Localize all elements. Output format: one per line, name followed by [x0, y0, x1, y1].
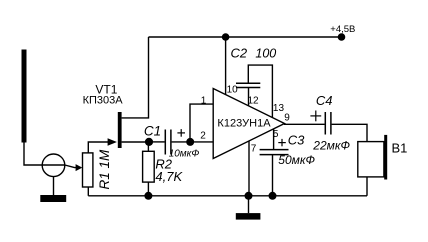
+4,5В terminal dot [338, 33, 346, 41]
junction dot rail / U1 pin 10 [222, 33, 230, 41]
ground (microphone) [53, 177, 55, 195]
potentiometer R1 [83, 153, 93, 187]
C2 loop wire to U1 pin 13 [248, 65, 272, 118]
wire R1 top to VT1 gate [88, 142, 108, 153]
speaker B1 body [358, 142, 384, 177]
U1 pin 1 wire [190, 104, 213, 142]
U1 pin 2 wire [190, 141, 213, 143]
wire C3 to common rail [272, 155, 274, 196]
speaker B1 diaphragm bar [384, 135, 387, 180]
wire VT1 source / R2 top [147, 142, 149, 151]
capacitor C4 [325, 112, 331, 135]
wire R2 bottom to common rail [147, 182, 149, 196]
wire node A to C1 [149, 141, 165, 143]
wire C4 to B1 [332, 124, 367, 141]
junction dot C3 / common rail [269, 192, 277, 200]
svg-text:C3: C3 [288, 133, 305, 148]
wire C1 to node B [172, 141, 191, 143]
common bottom rail [88, 195, 367, 197]
svg-text:50мкФ: 50мкФ [278, 153, 315, 167]
svg-text:9: 9 [284, 112, 290, 123]
svg-text:22мкФ: 22мкФ [312, 139, 350, 153]
op-amp U1 К123УН1А [213, 89, 284, 159]
VT1 gate arrow [108, 138, 117, 146]
svg-text:7: 7 [251, 144, 257, 155]
node A junction dot (VT1 source / C1 / R2) [145, 138, 153, 146]
transistor VT1 channel bar [118, 112, 122, 148]
svg-text:10: 10 [227, 85, 239, 96]
node B junction dot (pins 1-2) [186, 138, 194, 146]
VT1 source wire to node A [122, 141, 149, 143]
svg-text:12: 12 [248, 96, 260, 107]
svg-text:100: 100 [255, 47, 276, 61]
C4 plus sign [310, 111, 321, 122]
svg-text:C2: C2 [231, 46, 248, 61]
svg-text:5: 5 [273, 129, 279, 140]
svg-text:C1: C1 [144, 123, 161, 138]
U1 pin 5 wire to C3 [273, 129, 275, 149]
svg-text:C4: C4 [316, 93, 333, 108]
U1 pin 10 wire from rail [225, 37, 227, 95]
wire B1 to common rail [366, 177, 368, 196]
svg-text:К123УН1А: К123УН1А [217, 118, 271, 130]
U1 pin 9 output wire [284, 123, 325, 125]
svg-text:R1 1М: R1 1М [97, 149, 112, 190]
svg-text:+4,5В: +4,5В [330, 24, 355, 35]
resistor R2 [143, 151, 155, 182]
VT1 drain wire to +4,5В rail [122, 37, 149, 118]
svg-text:10мкФ: 10мкФ [169, 148, 200, 159]
U1 pin 12 wire from C2 [248, 88, 250, 107]
+4,5В power rail [149, 36, 342, 38]
C1 plus sign [177, 129, 185, 137]
svg-text:КП303А: КП303А [83, 94, 124, 106]
wire antenna to microphone [24, 143, 42, 166]
junction dot pin 7 / common rail [245, 192, 253, 200]
svg-text:В1: В1 [392, 141, 408, 156]
wire microphone to R1 wiper [65, 165, 77, 168]
capacitor C3 [260, 150, 289, 155]
svg-text:1: 1 [201, 96, 207, 107]
junction dot R2 / common rail [144, 192, 152, 200]
capacitor C2 [236, 83, 260, 87]
antenna W1 [22, 50, 27, 143]
svg-text:2: 2 [200, 130, 206, 141]
U1 pin 7 wire to common rail [248, 141, 250, 196]
svg-text:4,7K: 4,7K [155, 169, 183, 184]
microphone M1 [42, 154, 65, 177]
wire R1 bottom to common rail [87, 187, 89, 196]
arrow into R1 (wiper) [76, 164, 83, 171]
ground symbol [248, 196, 250, 213]
C3 plus sign [278, 139, 286, 146]
capacitor C1 [165, 130, 171, 155]
svg-text:13: 13 [273, 103, 285, 114]
